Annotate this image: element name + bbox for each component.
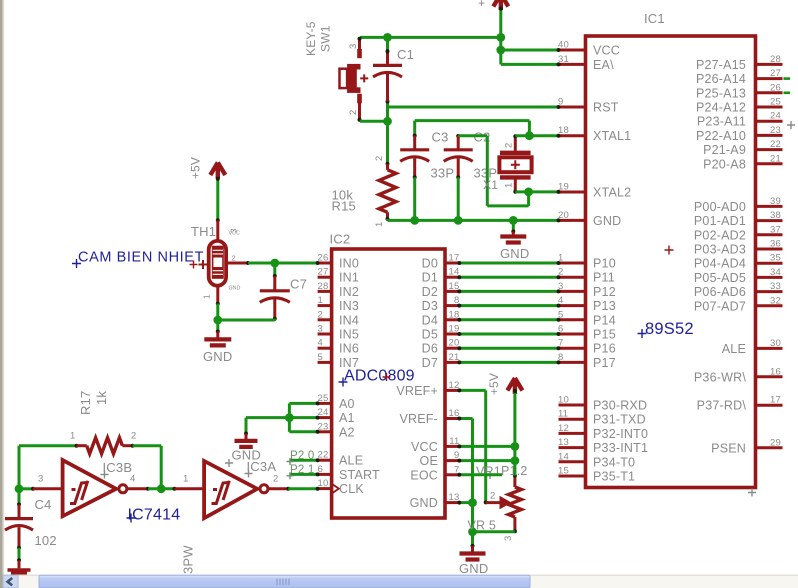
wire ALE P2.0 net — [289, 459, 317, 462]
svg-text:VR1: VR1 — [476, 465, 501, 479]
capacitor C4 bottom lead — [18, 527, 21, 548]
svg-text:ALE: ALE — [339, 454, 363, 468]
svg-text:37: 37 — [770, 224, 781, 235]
IC2 origin cross — [383, 373, 391, 381]
svg-text:21: 21 — [770, 153, 781, 164]
wire SW1 bottom to C1 column — [360, 120, 388, 123]
svg-text:32: 32 — [770, 295, 781, 306]
wire R17 left — [19, 444, 77, 447]
junction IC3B input node — [15, 484, 24, 493]
IC2 left pins (stubs, numbers, names) — [318, 253, 380, 497]
crystal X1 leads — [514, 136, 517, 151]
svg-text:29: 29 — [770, 437, 781, 448]
svg-text:X1: X1 — [483, 178, 498, 192]
svg-text:CLK: CLK — [339, 482, 364, 496]
wire VREF+ to wiper — [459, 389, 485, 392]
svg-text:2: 2 — [490, 491, 495, 502]
svg-text:36: 36 — [770, 239, 781, 250]
capacitor C1 — [373, 64, 402, 67]
wire +5V to top bus — [499, 8, 502, 37]
IC2 CLK clock mark — [332, 484, 339, 494]
wire R17 right to feedback — [133, 444, 162, 447]
IC2 ADC0809 box — [332, 249, 445, 518]
svg-text:R17: R17 — [78, 391, 93, 415]
IC1 left pins (stubs, numbers, names) — [558, 40, 648, 484]
svg-text:10: 10 — [558, 395, 569, 406]
svg-text:OE: OE — [420, 454, 438, 468]
svg-text:38: 38 — [770, 210, 781, 221]
ground GND bottom center — [471, 532, 474, 546]
svg-text:P22-A10: P22-A10 — [696, 129, 746, 143]
svg-text:C3: C3 — [432, 130, 449, 145]
svg-text:IN2: IN2 — [339, 285, 359, 299]
svg-text:EA\: EA\ — [593, 58, 614, 72]
wire START P2.1 net — [289, 473, 317, 476]
wire GND13 net — [459, 501, 472, 504]
svg-text:14: 14 — [558, 451, 569, 462]
junction SW1/C1/R15 node — [383, 117, 392, 126]
svg-text:P32-INT0: P32-INT0 — [593, 427, 648, 441]
svg-text:IC2: IC2 — [330, 232, 351, 247]
inverter IC3B output stub pin 4 — [127, 487, 148, 490]
crystal X1 body — [499, 157, 531, 172]
wire A2 net — [289, 430, 317, 433]
junction feedback node — [157, 484, 166, 493]
wire bus D0-D7 to P10-P17 — [457, 261, 560, 364]
svg-text:IC1: IC1 — [644, 11, 665, 26]
svg-text:R15: R15 — [332, 199, 356, 214]
svg-text:P14: P14 — [593, 313, 616, 327]
svg-text:16: 16 — [770, 366, 781, 377]
svg-text:VREF-: VREF- — [400, 412, 439, 426]
svg-text:3: 3 — [503, 536, 514, 541]
svg-text:IN0: IN0 — [339, 257, 359, 271]
junction TH1 gnd node — [213, 316, 222, 325]
svg-text:D6: D6 — [422, 342, 438, 356]
wire top bus SW1/C1/+5V — [360, 36, 501, 39]
sensor TH1 body — [209, 241, 226, 286]
capacitor C3 bottom lead — [413, 158, 416, 177]
capacitor C1 top lead — [386, 37, 389, 51]
svg-text:30: 30 — [770, 338, 781, 349]
svg-text:P17: P17 — [593, 356, 616, 370]
svg-text:P02-AD2: P02-AD2 — [694, 228, 746, 242]
svg-text:P11: P11 — [593, 271, 615, 285]
inverter IC3A input stub pin 1 — [175, 487, 205, 490]
origin cross right edge — [787, 121, 795, 129]
junction gnd bus at C2 — [454, 216, 463, 225]
svg-text:P16: P16 — [593, 342, 616, 356]
svg-text:P26-A14: P26-A14 — [696, 72, 746, 86]
svg-text:P37-RD\: P37-RD\ — [697, 399, 747, 413]
inverter IC3A hysteresis glyph — [212, 481, 230, 504]
switch SW1 origin cross — [360, 74, 368, 82]
svg-text:IN1: IN1 — [339, 271, 359, 285]
svg-text:P04-AD4: P04-AD4 — [694, 257, 746, 271]
op-amp region none; IC1 89S52 box — [586, 36, 756, 488]
svg-text:P21-A9: P21-A9 — [703, 143, 746, 157]
capacitor C2 top lead — [457, 134, 460, 137]
svg-text:P31-TXD: P31-TXD — [593, 413, 646, 427]
svg-text:+: + — [478, 0, 485, 10]
svg-text:GND: GND — [459, 561, 489, 576]
svg-text:TH1: TH1 — [191, 224, 216, 239]
capacitor C3 top loop wire — [415, 119, 530, 122]
svg-text:1: 1 — [318, 295, 323, 306]
scrollbar left button — [3, 575, 18, 588]
svg-text:2: 2 — [131, 431, 136, 442]
svg-text:KEY-5: KEY-5 — [304, 21, 318, 56]
capacitor C3 top lead — [413, 121, 416, 136]
svg-text:10: 10 — [318, 478, 329, 489]
svg-text:3: 3 — [38, 474, 43, 485]
sensor TH1 origin cross — [199, 260, 208, 269]
svg-text:IN5: IN5 — [339, 328, 359, 342]
svg-text:26: 26 — [770, 82, 781, 93]
svg-text:C7: C7 — [290, 277, 307, 292]
svg-text:89S52: 89S52 — [645, 320, 694, 338]
svg-text:17: 17 — [770, 395, 781, 406]
svg-text:33: 33 — [770, 281, 781, 292]
svg-text:A0: A0 — [339, 397, 355, 411]
svg-text:3PW: 3PW — [181, 545, 196, 574]
potentiometer VR1 wiper arrow — [486, 501, 502, 504]
svg-text:2: 2 — [374, 156, 385, 161]
svg-text:P35-T1: P35-T1 — [593, 470, 635, 484]
svg-text:2: 2 — [273, 474, 278, 485]
svg-text:RST: RST — [593, 101, 619, 115]
svg-text:1: 1 — [70, 431, 75, 442]
svg-text:25: 25 — [770, 97, 781, 108]
svg-text:24: 24 — [770, 111, 781, 122]
sensor TH1 right pin — [225, 262, 228, 265]
svg-text:P13: P13 — [593, 299, 616, 313]
svg-text:GND: GND — [500, 246, 530, 261]
wire +5V to TH1 — [216, 178, 219, 220]
wire XTAL1 net — [515, 134, 558, 137]
inverter IC3A bubble — [260, 485, 268, 493]
wire gnd node down — [471, 503, 474, 532]
svg-text:VCC: VCC — [229, 231, 241, 237]
wire VCC net — [459, 445, 515, 448]
svg-text:GND: GND — [593, 214, 621, 228]
inverter IC3B hysteresis glyph — [70, 481, 88, 504]
wire nub at IC1 pin 26 — [784, 92, 791, 95]
svg-text:SW1: SW1 — [319, 25, 333, 52]
svg-text:3: 3 — [318, 324, 323, 335]
capacitor C3 — [400, 148, 429, 151]
svg-text:28: 28 — [318, 281, 329, 292]
svg-text:2: 2 — [504, 143, 515, 148]
junction XTAL1 at C3 loop — [525, 131, 534, 140]
junction +5V at VCC — [511, 442, 520, 451]
junction top bus at C1 — [383, 33, 392, 42]
svg-text:GND: GND — [229, 286, 241, 292]
svg-text:1k: 1k — [94, 391, 109, 405]
svg-text:1: 1 — [203, 294, 212, 299]
svg-text:P24-A12: P24-A12 — [696, 101, 746, 115]
wire CLK net — [288, 487, 317, 490]
svg-text:27: 27 — [770, 68, 781, 79]
svg-text:D3: D3 — [422, 299, 438, 313]
svg-text:IC3B: IC3B — [103, 460, 133, 475]
svg-text:P01-AD1: P01-AD1 — [694, 214, 746, 228]
wire gnd node to C7 — [218, 319, 275, 322]
svg-text:P34-T0: P34-T0 — [593, 455, 635, 469]
svg-text:P33-INT1: P33-INT1 — [593, 441, 648, 455]
svg-text:39: 39 — [770, 196, 781, 207]
wire IN0 net — [248, 262, 318, 265]
svg-text:P20-A8: P20-A8 — [703, 157, 746, 171]
wire to IC1 pin 40 VCC — [501, 49, 559, 52]
svg-text:IN7: IN7 — [339, 356, 359, 370]
svg-text:EOC: EOC — [410, 468, 438, 482]
svg-text:IN4: IN4 — [339, 313, 359, 327]
switch SW1 bottom stub pin 2 — [357, 94, 362, 104]
svg-text:P2 0: P2 0 — [290, 450, 314, 462]
svg-text:11: 11 — [558, 409, 568, 420]
svg-text:D0: D0 — [422, 257, 438, 271]
svg-text:CAM BIEN NHIET: CAM BIEN NHIET — [78, 250, 204, 266]
svg-text:XTAL1: XTAL1 — [593, 129, 631, 143]
svg-text:4: 4 — [130, 474, 135, 485]
junction A bus — [285, 413, 294, 422]
capacitor C1 bottom lead — [386, 74, 389, 102]
svg-text:PSEN: PSEN — [711, 441, 746, 455]
power +5V symbol (TH1) — [210, 163, 225, 179]
wire OE net — [459, 459, 515, 462]
svg-text:ADC0809: ADC0809 — [344, 368, 415, 385]
crystal X1 origin cross — [511, 160, 520, 169]
inverter IC3B triangle — [63, 460, 117, 516]
svg-text:23: 23 — [770, 125, 781, 136]
wire pot bottom — [473, 530, 515, 533]
svg-text:P30-RXD: P30-RXD — [593, 399, 647, 413]
svg-text:A1: A1 — [339, 411, 355, 425]
svg-text:D4: D4 — [422, 313, 438, 327]
svg-text:VR 5: VR 5 — [468, 519, 497, 533]
svg-text:D5: D5 — [422, 328, 438, 342]
potentiometer VR1 body — [508, 487, 521, 517]
svg-text:IN6: IN6 — [339, 342, 359, 356]
svg-text:P00-AD0: P00-AD0 — [694, 200, 746, 214]
svg-text:D7: D7 — [422, 356, 438, 370]
svg-text:GND: GND — [203, 349, 233, 364]
capacitor C4 — [5, 517, 33, 520]
svg-text:C4: C4 — [35, 497, 52, 512]
IC1 right pins (stubs, numbers, names) — [694, 54, 783, 455]
svg-text:5: 5 — [318, 352, 323, 363]
inverter IC3B input stub pin 3 — [33, 487, 63, 490]
svg-text:START: START — [339, 468, 380, 482]
IC2 right pins (stubs, numbers, names) — [396, 253, 459, 511]
sensor TH1 bottom lead — [216, 286, 219, 304]
svg-text:13: 13 — [558, 437, 569, 448]
svg-text:VREF+: VREF+ — [396, 384, 438, 398]
origin cross IC1 corner — [748, 489, 756, 497]
window left border — [0, 0, 3, 588]
svg-text:1: 1 — [183, 474, 188, 485]
svg-text:P27-A15: P27-A15 — [696, 58, 746, 72]
svg-text:VCC: VCC — [593, 44, 620, 58]
svg-text:IC7414: IC7414 — [128, 507, 181, 524]
inverter IC3B bubble — [119, 485, 127, 493]
wire XTAL2 net — [515, 190, 558, 193]
crystal X1 top plate — [500, 151, 531, 155]
svg-text:2: 2 — [318, 309, 323, 320]
svg-text:27: 27 — [318, 267, 329, 278]
resistor R15 — [379, 170, 396, 213]
wire A0 net — [289, 402, 317, 405]
wire C4/input node vertical — [18, 446, 21, 489]
svg-text:+5V: +5V — [487, 373, 501, 395]
svg-text:ALE: ALE — [722, 342, 746, 356]
svg-text:XTAL2: XTAL2 — [593, 186, 631, 200]
svg-text:34: 34 — [770, 267, 781, 278]
inverter IC3A output stub pin 2 — [268, 487, 289, 490]
svg-text:IC3A: IC3A — [247, 459, 277, 474]
wire C2 top to crystal bottom route — [458, 134, 487, 137]
capacitor C7 — [260, 289, 290, 292]
crystal X1 bottom plate — [500, 175, 531, 179]
junction XTAL2 at C2 route — [524, 188, 533, 197]
ground GND at TH1 — [216, 320, 219, 332]
svg-text:P36-WR\: P36-WR\ — [694, 370, 746, 384]
svg-text:P12: P12 — [593, 285, 616, 299]
switch SW1 top stub pin 3 — [358, 37, 361, 50]
wire +5V down to VCC/EA — [499, 37, 502, 64]
svg-text:33P: 33P — [431, 166, 455, 181]
power +5V symbol (pot) — [507, 378, 522, 394]
junction at VCC branch — [496, 46, 505, 55]
wire IC3B out to IC3A in — [148, 487, 175, 490]
svg-text:P10: P10 — [593, 257, 616, 271]
svg-text:4: 4 — [318, 338, 323, 349]
capacitor C2 — [444, 148, 473, 151]
wire to IC1 pin 31 EA — [501, 63, 559, 66]
wire TH1 bottom to gnd node — [216, 304, 219, 320]
capacitor C2 bottom lead — [457, 158, 460, 177]
svg-text:2: 2 — [232, 254, 236, 263]
svg-text:2: 2 — [348, 110, 359, 115]
svg-text:P15: P15 — [593, 328, 616, 342]
ground GND at A pins — [245, 418, 248, 434]
svg-text:P23-A11: P23-A11 — [697, 115, 746, 129]
wire C1 bottom to junction to R15 — [386, 101, 389, 164]
IC1 origin cross — [665, 246, 674, 255]
svg-text:15: 15 — [558, 466, 569, 477]
resistor R17 — [87, 438, 123, 454]
sensor TH1 top lead — [216, 220, 219, 241]
svg-text:P07-AD7: P07-AD7 — [694, 299, 746, 313]
capacitor C4 top lead — [18, 489, 21, 505]
ground GND below crystal bus — [512, 220, 515, 231]
svg-text:+5V: +5V — [189, 157, 203, 179]
wire A1 net — [246, 416, 318, 419]
svg-text:P05-AD5: P05-AD5 — [694, 271, 746, 285]
capacitor C7 top lead — [273, 263, 276, 276]
svg-text:1: 1 — [504, 183, 515, 188]
wire A0-A2 vertical tie — [288, 403, 291, 431]
svg-text:D2: D2 — [422, 285, 438, 299]
svg-text:C1: C1 — [397, 47, 414, 62]
svg-text:P06-AD6: P06-AD6 — [694, 285, 746, 299]
svg-text:102: 102 — [35, 533, 57, 548]
svg-text:22: 22 — [770, 139, 781, 150]
wire EOC net — [459, 473, 502, 476]
svg-text:28: 28 — [770, 54, 781, 65]
junction gnd node (pot) — [468, 498, 477, 507]
svg-text:P2 1: P2 1 — [290, 464, 314, 476]
wire R15 bottom to gnd bus — [386, 219, 389, 220]
wire RST net — [388, 106, 559, 109]
svg-text:12: 12 — [558, 423, 569, 434]
power +5V symbol top (clipped) — [493, 0, 508, 10]
scrollbar track — [3, 575, 798, 588]
svg-text:3: 3 — [348, 44, 359, 49]
svg-text:IN3: IN3 — [339, 299, 359, 313]
wire +5V to VCC/OE/pot — [513, 391, 516, 476]
wire gnd bus to IC1 pin 20 — [388, 219, 559, 222]
svg-text:P03-AD3: P03-AD3 — [694, 243, 746, 257]
junction top bus at +5V — [496, 33, 505, 42]
svg-text:A2: A2 — [339, 425, 355, 439]
junction IN0 at C7 — [270, 259, 279, 268]
svg-text:GND: GND — [410, 496, 438, 510]
svg-text:D1: D1 — [422, 271, 438, 285]
svg-text:VCC: VCC — [411, 440, 438, 454]
svg-text:1: 1 — [374, 222, 385, 227]
capacitor C7 bottom lead — [273, 299, 276, 319]
switch SW1 body — [347, 64, 357, 93]
wire input node to IC3B — [19, 487, 33, 490]
junction +5V at OE — [511, 456, 520, 465]
junction gnd bus at GND sym — [509, 216, 518, 225]
svg-text:35: 35 — [770, 253, 781, 264]
ground GND at C4 — [18, 559, 21, 561]
wire nub at IC1 pin 27 — [784, 77, 791, 80]
wire VREF- to gnd — [459, 417, 472, 420]
junction gnd bus at C3 — [410, 216, 419, 225]
junction pot bottom node — [468, 527, 477, 536]
inverter IC3A triangle — [204, 461, 257, 518]
svg-text:P25-A13: P25-A13 — [696, 86, 746, 100]
